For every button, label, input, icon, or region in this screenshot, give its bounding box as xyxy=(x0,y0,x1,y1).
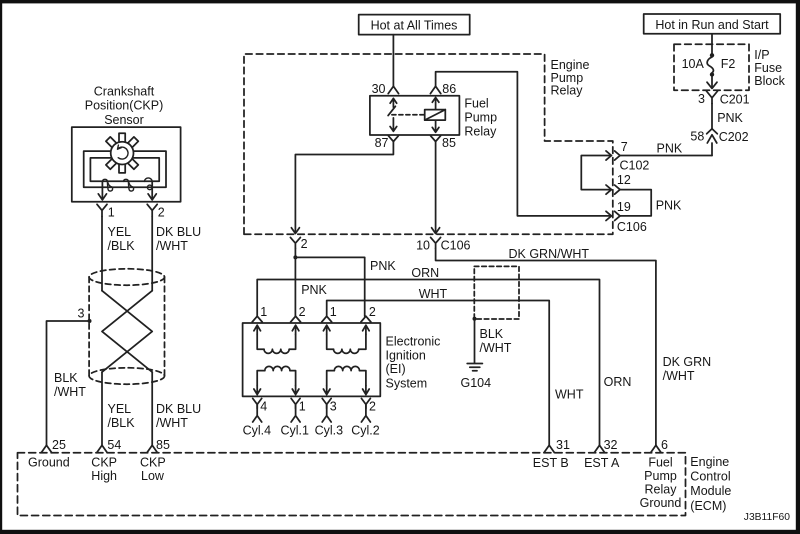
svg-text:Relay: Relay xyxy=(551,84,584,98)
svg-text:Cyl.3: Cyl.3 xyxy=(315,424,344,438)
svg-text:1: 1 xyxy=(299,400,306,414)
label Crankshaft Position (CKP) Sensor xyxy=(85,85,164,127)
node shield junction G104 xyxy=(473,317,477,321)
svg-text:I/P: I/P xyxy=(754,48,769,62)
wire ORN from EI pin 1 to ECM pin 32 xyxy=(257,266,631,445)
svg-text:Crankshaft: Crankshaft xyxy=(94,85,155,99)
wire connector 7 to connector 12 xyxy=(581,156,611,190)
label Engine Control Module (ECM) xyxy=(690,455,731,513)
wire DK BLU/WHT to ECM pin 85 xyxy=(152,372,201,445)
svg-text:/WHT: /WHT xyxy=(480,341,512,355)
svg-text:Engine: Engine xyxy=(690,455,729,469)
I/P fuse block (dashed) xyxy=(674,44,786,90)
wire junction to EI pin 2 (PNK) xyxy=(295,257,327,316)
svg-text:87: 87 xyxy=(375,136,389,150)
svg-text:1: 1 xyxy=(260,305,267,319)
svg-text:4: 4 xyxy=(260,400,267,414)
svg-text:PNK: PNK xyxy=(717,111,743,125)
svg-text:30: 30 xyxy=(372,82,386,96)
svg-text:C202: C202 xyxy=(719,130,749,144)
EI coil secondary left xyxy=(254,366,299,394)
svg-text:WHT: WHT xyxy=(419,287,448,301)
wire Hot in Run and Start to fuse F2 xyxy=(711,34,713,55)
svg-text:85: 85 xyxy=(442,136,456,150)
ECM pin 85 terminal xyxy=(140,438,170,483)
svg-text:10A: 10A xyxy=(682,57,705,71)
ground G104 xyxy=(461,364,492,391)
svg-text:PNK: PNK xyxy=(301,283,327,297)
svg-text:Module: Module xyxy=(690,484,731,498)
sensor reluctor gear xyxy=(106,133,138,173)
svg-text:(EI): (EI) xyxy=(386,362,406,376)
wire C202 down and left to C102 pin 7 xyxy=(711,143,713,156)
EI coil secondary right xyxy=(323,366,369,394)
svg-text:Pump: Pump xyxy=(464,111,497,125)
svg-text:/BLK: /BLK xyxy=(108,416,136,430)
junction node xyxy=(293,255,297,259)
svg-text:/WHT: /WHT xyxy=(663,369,695,383)
svg-text:Sensor: Sensor xyxy=(104,113,144,127)
svg-text:Electronic: Electronic xyxy=(386,334,441,348)
relay coil link (dashed) xyxy=(392,114,425,116)
sensor pickup winding xyxy=(102,178,152,191)
svg-text:6: 6 xyxy=(661,438,668,452)
svg-text:J3B11F60: J3B11F60 xyxy=(744,512,790,523)
svg-text:/WHT: /WHT xyxy=(156,239,188,253)
svg-text:Cyl.4: Cyl.4 xyxy=(243,424,272,438)
svg-text:Pump: Pump xyxy=(644,469,677,483)
EI cyl 4 connector xyxy=(243,398,272,437)
svg-text:CKP: CKP xyxy=(140,456,166,470)
svg-text:86: 86 xyxy=(442,82,456,96)
wire DK GRN/WHT from C106 to ECM pin 6 xyxy=(436,247,712,445)
svg-text:DK BLU: DK BLU xyxy=(156,225,201,239)
svg-text:54: 54 xyxy=(107,438,121,452)
relay switch arm (pins 30-87) xyxy=(388,98,397,131)
svg-text:CKP: CKP xyxy=(91,456,117,470)
svg-text:EST B: EST B xyxy=(533,456,569,470)
svg-text:High: High xyxy=(91,469,117,483)
svg-text:PNK: PNK xyxy=(656,199,682,213)
svg-text:2: 2 xyxy=(158,206,165,220)
svg-text:EST A: EST A xyxy=(584,456,620,470)
connector C106 pin 19 xyxy=(606,200,647,234)
connector C202 pin 58 xyxy=(690,129,748,144)
wire junction right branch to EI pin 2b (PNK) xyxy=(295,257,396,316)
relay pin 30 terminal xyxy=(372,82,399,96)
svg-text:Relay: Relay xyxy=(645,483,678,497)
svg-text:YEL: YEL xyxy=(108,402,132,416)
svg-text:3: 3 xyxy=(330,400,337,414)
svg-text:7: 7 xyxy=(621,140,628,154)
connector C201 pin 3 xyxy=(698,91,750,107)
shield cylinder (dashed) xyxy=(89,269,164,384)
engine pump relay dashed boundary xyxy=(244,54,613,234)
svg-text:2: 2 xyxy=(301,237,308,251)
svg-text:DK BLU: DK BLU xyxy=(156,402,201,416)
EI pin 1b terminal xyxy=(322,305,337,322)
svg-text:58: 58 xyxy=(690,130,704,144)
svg-text:25: 25 xyxy=(52,438,66,452)
label Electronic Ignition (EI) System xyxy=(386,334,441,390)
sensor lead arrows xyxy=(98,181,156,200)
sensor pin 1 connector xyxy=(97,204,115,219)
ECM pin 54 terminal xyxy=(91,438,121,483)
svg-text:32: 32 xyxy=(604,438,618,452)
svg-text:Fuel: Fuel xyxy=(464,97,488,111)
svg-text:/WHT: /WHT xyxy=(156,416,188,430)
fuse F2 10A xyxy=(682,53,736,77)
svg-text:Cyl.1: Cyl.1 xyxy=(281,424,310,438)
wire Hot at All Times to relay pin 30 xyxy=(392,35,394,87)
svg-text:System: System xyxy=(386,376,428,390)
svg-text:BLK: BLK xyxy=(54,371,78,385)
svg-text:Block: Block xyxy=(754,74,785,88)
sensor inner box xyxy=(90,158,159,181)
relay coil box xyxy=(425,98,446,133)
svg-text:Cyl.2: Cyl.2 xyxy=(351,424,380,438)
svg-text:WHT: WHT xyxy=(555,388,584,402)
svg-text:1: 1 xyxy=(330,305,337,319)
svg-text:Control: Control xyxy=(690,470,730,484)
svg-text:Position(CKP): Position(CKP) xyxy=(85,99,164,113)
svg-text:2: 2 xyxy=(369,400,376,414)
wire connector 19 to relay pin 86 xyxy=(436,72,612,216)
svg-text:ORN: ORN xyxy=(604,375,632,389)
svg-text:Relay: Relay xyxy=(464,125,497,139)
EI pin 2b terminal xyxy=(361,305,376,322)
svg-text:DK GRN/WHT: DK GRN/WHT xyxy=(509,247,590,261)
twisted pair crossing xyxy=(102,291,152,372)
svg-text:Ground: Ground xyxy=(28,456,70,470)
svg-text:2: 2 xyxy=(299,305,306,319)
EI cyl 3 connector xyxy=(315,398,344,437)
ECM pin 6 terminal xyxy=(640,438,682,510)
svg-text:Hot at All Times: Hot at All Times xyxy=(371,19,458,33)
EI coil primary left xyxy=(254,325,299,353)
svg-text:F2: F2 xyxy=(721,57,736,71)
svg-text:PNK: PNK xyxy=(370,259,396,273)
svg-text:12: 12 xyxy=(617,173,631,187)
wire YEL/BLK sensor pin 1 down xyxy=(102,217,135,291)
wire connector 2 down to junction xyxy=(294,248,296,257)
relay pin 87 terminal xyxy=(375,136,399,150)
relay U: fuel pump relay box xyxy=(370,96,460,135)
wire relay pin 85 down to connector 10 C106 xyxy=(432,142,440,234)
EI coil primary right xyxy=(323,325,369,353)
svg-text:C106: C106 xyxy=(441,238,471,252)
sensor U: CKP sensor outer box xyxy=(72,127,181,202)
wire horizontal PNK to connector 7 xyxy=(620,141,712,155)
ECM pin 25 terminal xyxy=(28,438,70,470)
svg-text:3: 3 xyxy=(698,92,705,106)
node Hot at All Times xyxy=(359,15,470,35)
ECM dashed box xyxy=(18,453,686,516)
svg-text:C102: C102 xyxy=(620,159,650,173)
wire loop connector 12 to connector 19 (PNK) xyxy=(620,190,682,216)
svg-text:Ignition: Ignition xyxy=(386,348,426,362)
svg-text:Fuse: Fuse xyxy=(754,61,782,75)
wire BLK/WHT to ground G104 xyxy=(475,319,512,363)
relay pin 86 terminal xyxy=(430,82,456,96)
EI cyl 1 connector xyxy=(281,398,310,437)
svg-text:Low: Low xyxy=(141,469,165,483)
svg-text:Ground: Ground xyxy=(640,496,682,510)
svg-text:Hot in Run and Start: Hot in Run and Start xyxy=(655,18,769,32)
EI pin 2 terminal xyxy=(291,305,306,322)
EI cyl 2 connector xyxy=(351,398,380,437)
svg-text:/BLK: /BLK xyxy=(108,239,136,253)
svg-text:C201: C201 xyxy=(720,93,750,107)
svg-text:19: 19 xyxy=(617,200,631,214)
svg-text:1: 1 xyxy=(108,206,115,220)
wire PNK C201 to C202 xyxy=(712,104,744,129)
EI pin 1 terminal xyxy=(252,305,267,322)
node Hot in Run and Start xyxy=(644,14,781,34)
svg-text:DK GRN: DK GRN xyxy=(663,355,712,369)
ECM pin 32 terminal xyxy=(584,438,620,470)
wire fuse to C201 with arrow xyxy=(707,76,717,88)
dashed option box at G104 xyxy=(474,266,519,319)
wire YEL/BLK to ECM pin 54 xyxy=(102,372,135,445)
connector 10 C106 xyxy=(416,237,470,252)
wire DK BLU/WHT sensor pin 2 down xyxy=(152,217,201,291)
svg-text:85: 85 xyxy=(156,438,170,452)
svg-text:BLK: BLK xyxy=(480,327,504,341)
label Fuel Pump Relay xyxy=(464,97,497,139)
sensor middle box xyxy=(84,151,166,187)
svg-text:YEL: YEL xyxy=(108,225,132,239)
svg-text:G104: G104 xyxy=(461,376,492,390)
relay pin 85 terminal xyxy=(431,136,456,150)
svg-text:PNK: PNK xyxy=(657,141,683,155)
svg-text:(ECM): (ECM) xyxy=(690,499,726,513)
wire BLK/WHT shield to ECM pin 25 xyxy=(47,321,90,445)
svg-text:ORN: ORN xyxy=(411,266,439,280)
connector C102 pin 7 xyxy=(606,140,649,172)
connector 2 (to EI) xyxy=(290,237,307,251)
wire relay pin 87 to connector 2 (PNK) xyxy=(291,142,393,234)
sensor pin 2 connector xyxy=(147,204,165,219)
node shield tap 3 xyxy=(78,306,92,323)
svg-text:31: 31 xyxy=(556,438,570,452)
ECM pin 31 terminal xyxy=(533,438,570,470)
label Engine Pump Relay xyxy=(551,58,590,98)
EI system box U xyxy=(243,323,381,396)
svg-text:Fuel: Fuel xyxy=(648,456,672,470)
svg-text:C106: C106 xyxy=(617,220,647,234)
svg-text:3: 3 xyxy=(78,306,85,320)
svg-text:10: 10 xyxy=(416,238,430,252)
svg-text:2: 2 xyxy=(369,305,376,319)
connector C102 pin 12 xyxy=(606,173,631,194)
wire WHT from EI pin 3 to ECM pin 31 xyxy=(327,287,584,445)
svg-text:/WHT: /WHT xyxy=(54,385,86,399)
